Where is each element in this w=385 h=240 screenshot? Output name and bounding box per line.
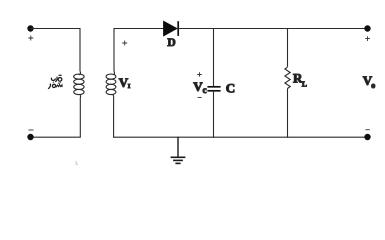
wire bottom-left from primary (31, 98, 81, 137)
transformer primary coil (74, 71, 84, 98)
terminal dot bottom-left (27, 134, 33, 140)
stray faint mark (76, 161, 78, 165)
svg-text:I: I (128, 83, 131, 90)
wire capacitor top lead (213, 29, 215, 87)
transformer secondary coil (106, 71, 116, 98)
svg-text:c: c (203, 85, 207, 95)
svg-text:o: o (371, 81, 375, 90)
diode D (164, 21, 179, 36)
resistor RL zigzag (285, 67, 290, 88)
terminal dot top-left (27, 25, 33, 31)
svg-text:C: C (226, 81, 235, 96)
wire capacitor bottom lead (213, 92, 215, 138)
wire resistor top lead (287, 29, 289, 67)
label + top-right terminal (365, 36, 370, 41)
wire resistor bottom lead (287, 88, 289, 137)
wire secondary top lead to diode anode (114, 29, 164, 72)
ground (171, 137, 186, 164)
svg-text:D: D (167, 37, 175, 49)
label − bottom-right terminal (366, 129, 370, 131)
wire secondary bottom lead (113, 98, 115, 138)
wire diode cathode to top-right (178, 28, 367, 30)
wire top-left to primary (31, 29, 81, 72)
terminal dot top-right (364, 25, 370, 31)
label − below Vc (198, 96, 202, 98)
label − bottom-left terminal (29, 129, 34, 131)
capacitor C plates (207, 87, 220, 91)
label "برق شهر" (city mains, drawn) (49, 75, 63, 89)
label + top-left terminal (28, 36, 33, 41)
label + secondary (122, 41, 127, 46)
wire bottom bus (114, 136, 368, 138)
terminal dot bottom-right (364, 134, 370, 140)
svg-text:L: L (302, 80, 307, 89)
label + above Vc (197, 72, 202, 77)
